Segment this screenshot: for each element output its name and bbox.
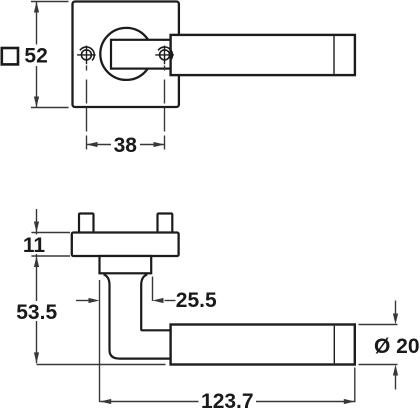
- svg-text:Ø 20: Ø 20: [374, 335, 420, 358]
- svg-text:25.5: 25.5: [176, 289, 217, 312]
- svg-text:53.5: 53.5: [16, 301, 57, 324]
- svg-text:11: 11: [23, 234, 46, 257]
- svg-text:38: 38: [114, 134, 138, 157]
- svg-text:52: 52: [24, 44, 47, 67]
- svg-text:123.7: 123.7: [201, 390, 254, 413]
